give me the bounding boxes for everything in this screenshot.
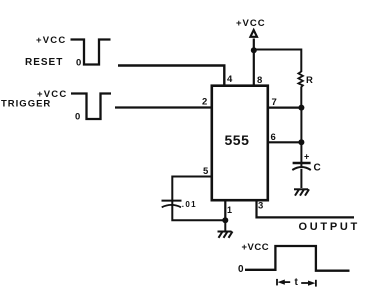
svg-text:5: 5 [203, 166, 209, 177]
svg-text:6: 6 [271, 132, 276, 143]
timing marker t ticks and arrows [277, 279, 316, 287]
svg-text:1: 1 [227, 205, 232, 215]
wire reset to pin 4 [118, 66, 224, 86]
svg-text:0: 0 [76, 58, 81, 69]
wire node 7 to node 6 [300, 108, 302, 143]
reset input waveform [71, 40, 111, 65]
wire pin 7 [268, 106, 301, 108]
svg-text:+: + [304, 152, 309, 162]
node pin 7 junction [298, 105, 304, 111]
wire trigger to pin 2 [115, 106, 212, 108]
node pin 1 / ground junction [222, 217, 228, 223]
svg-text:0: 0 [238, 264, 244, 275]
svg-text:2: 2 [202, 97, 207, 108]
pin 3 output wire [257, 200, 355, 217]
svg-text:+VCC: +VCC [242, 242, 270, 253]
capacitor C [292, 163, 311, 170]
svg-text:R: R [306, 75, 313, 86]
wire node to ground [224, 220, 226, 231]
wire node 6 to capacitor C [300, 142, 302, 167]
node pin 6 junction [298, 139, 304, 145]
svg-text:0: 0 [75, 112, 80, 123]
output waveform [245, 246, 350, 271]
+VCC arrow terminal [250, 30, 257, 37]
svg-text:C: C [314, 163, 321, 174]
wire pin 6 [268, 141, 301, 143]
ground (below C) [294, 189, 309, 195]
resistor R [298, 72, 303, 87]
svg-text:555: 555 [225, 132, 250, 148]
svg-text:8: 8 [257, 75, 262, 86]
pin 1 wire [224, 200, 226, 220]
svg-text:4: 4 [227, 74, 233, 85]
svg-text:RESET: RESET [25, 57, 63, 68]
svg-text:+VCC: +VCC [36, 35, 66, 46]
IC U1 555 [212, 86, 268, 201]
capacitor .01 [162, 201, 182, 208]
wire R to pin 7 node [300, 87, 302, 108]
svg-text:OUTPUT: OUTPUT [299, 221, 360, 233]
trigger input waveform [71, 94, 111, 120]
svg-text:7: 7 [272, 97, 277, 108]
svg-text:.01: .01 [182, 200, 197, 209]
wire .01 cap to pin 1 node [172, 205, 225, 220]
wire VCC to pin 8 [253, 39, 255, 86]
svg-text:+VCC: +VCC [236, 18, 266, 29]
wire C to ground [300, 169, 302, 188]
wire VCC to R [254, 50, 301, 73]
svg-text:t: t [295, 277, 299, 288]
ground (below pin 1) [218, 232, 233, 238]
svg-text:3: 3 [258, 201, 263, 212]
svg-text:TRIGGER: TRIGGER [1, 99, 51, 110]
wire pin 5 to .01 capacitor [172, 177, 212, 207]
node VCC junction [251, 47, 257, 53]
